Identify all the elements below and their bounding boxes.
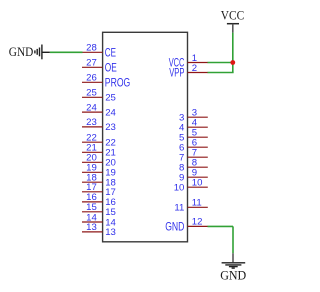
pin 10 stub — [188, 186, 208, 188]
svg-text:10: 10 — [174, 183, 185, 194]
svg-text:28: 28 — [86, 43, 97, 54]
pin 2 VPP stub — [188, 72, 208, 74]
svg-text:VPP: VPP — [169, 68, 184, 80]
svg-text:PROG: PROG — [105, 77, 131, 89]
pin 13 stub — [82, 231, 103, 233]
svg-text:OE: OE — [105, 62, 117, 74]
pin 20 stub — [82, 161, 103, 163]
svg-text:2: 2 — [192, 63, 197, 74]
pin 26 PROG stub — [82, 81, 103, 83]
svg-text:GND: GND — [165, 221, 184, 233]
svg-text:CE: CE — [105, 47, 116, 59]
pin 23 stub — [82, 126, 103, 128]
ground symbol bottom bars — [222, 263, 246, 268]
pin 17 stub — [82, 191, 103, 193]
pin 1 VCC stub — [188, 62, 208, 64]
svg-text:VCC: VCC — [221, 8, 244, 22]
svg-text:GND: GND — [220, 269, 246, 283]
pin 18 stub — [82, 181, 103, 183]
svg-text:13: 13 — [105, 227, 116, 238]
wire pin28 to left GND — [50, 51, 83, 53]
pin 14 stub — [82, 221, 103, 223]
svg-text:11: 11 — [192, 198, 202, 209]
pin 27 OE stub — [82, 66, 103, 68]
pin 5 stub — [188, 136, 208, 138]
wire pin1 to VCC rail — [208, 62, 233, 64]
pin 28 CE stub — [82, 51, 103, 53]
wire VCC vertical — [232, 33, 234, 73]
VCC power symbol stem — [232, 24, 234, 33]
pin 11 stub — [188, 206, 208, 208]
ground symbol left lead — [42, 51, 50, 53]
pin 6 stub — [188, 146, 208, 148]
svg-text:24: 24 — [86, 102, 97, 113]
pin 24 stub — [82, 111, 103, 113]
VCC power symbol bar — [227, 23, 239, 25]
svg-text:23: 23 — [86, 117, 97, 128]
ground symbol bottom stem — [232, 253, 234, 262]
wire pin2 to VCC rail — [208, 72, 234, 74]
svg-text:27: 27 — [86, 58, 97, 69]
pin 12 GND stub — [188, 225, 208, 227]
svg-text:GND: GND — [9, 45, 34, 59]
junction dot at pin1/VCC — [230, 60, 235, 65]
svg-text:12: 12 — [192, 217, 203, 228]
ground symbol left bars — [35, 45, 42, 60]
pin 19 stub — [82, 171, 103, 173]
pin 3 stub — [188, 116, 208, 118]
pin 8 stub — [188, 166, 208, 168]
svg-text:23: 23 — [105, 122, 116, 133]
pin 15 stub — [82, 211, 103, 213]
wire pin12 vertical to ground — [232, 226, 234, 253]
svg-text:25: 25 — [105, 93, 116, 104]
svg-text:24: 24 — [105, 107, 116, 118]
IC body U1 — [103, 32, 188, 242]
pin 9 stub — [188, 176, 208, 178]
wire pin12 horizontal — [208, 225, 234, 227]
pin 25 stub — [82, 96, 103, 98]
svg-text:13: 13 — [86, 222, 97, 233]
svg-text:11: 11 — [174, 203, 184, 214]
svg-text:10: 10 — [192, 178, 203, 189]
pin 21 stub — [82, 151, 103, 153]
pin 7 stub — [188, 156, 208, 158]
pin 4 stub — [188, 126, 208, 128]
pin 22 stub — [82, 141, 103, 143]
svg-text:26: 26 — [86, 73, 97, 84]
svg-text:25: 25 — [86, 88, 97, 99]
pin 16 stub — [82, 201, 103, 203]
